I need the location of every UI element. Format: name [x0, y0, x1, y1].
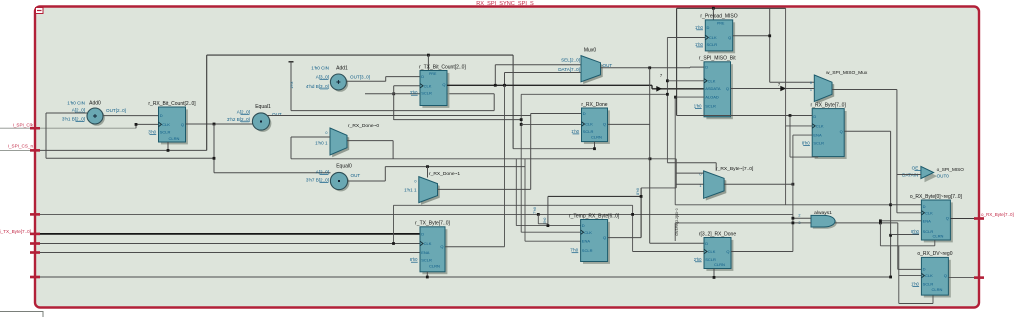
port tick i_SPI_Clk [30, 127, 40, 129]
svg-text:ENA: ENA [582, 239, 591, 244]
comparator Equal1 [254, 115, 271, 132]
junction y158 end [213, 157, 216, 160]
wire preload Q [733, 35, 770, 37]
junction aload [674, 96, 677, 99]
wire clk trunk y94 [521, 93, 667, 95]
junction r_TX_Byte clrn [426, 276, 429, 279]
svg-text:CLK: CLK [424, 83, 432, 88]
svg-text:i_TX_Byte[7..0]: i_TX_Byte[7..0] [0, 229, 31, 234]
junction Q x496 [494, 84, 497, 87]
svg-text:CLRN: CLRN [169, 136, 180, 141]
svg-text:CLK: CLK [709, 35, 717, 40]
wire y205 mid trunk [394, 204, 633, 206]
junction always in b [792, 222, 795, 225]
port o_RX_Byte wire [950, 218, 979, 220]
pin stub OE [915, 170, 921, 172]
svg-text:Add0: Add0 [89, 101, 101, 107]
wire to Equal0 A [214, 172, 331, 174]
svg-text:A[2..0]: A[2..0] [72, 108, 85, 113]
wire rxmux out [724, 183, 793, 185]
port tick y215 [30, 213, 40, 215]
svg-text:r_Preload_MISO: r_Preload_MISO [700, 14, 737, 20]
wire Add0 A feedback loop [46, 112, 87, 114]
mux r_RX_Done~0 [332, 130, 349, 157]
svg-text:8'h0: 8'h0 [802, 141, 810, 146]
wire to w mux in0 [770, 81, 815, 83]
port tick y252 [30, 251, 40, 253]
svg-text:3'h2 B[2..0]: 3'h2 B[2..0] [227, 117, 250, 122]
wire i_SPI_Clk entry [0, 127, 136, 129]
svg-text:1'h0 CIN: 1'h0 CIN [311, 66, 329, 71]
svg-text:0: 0 [810, 81, 812, 85]
mux w_SPI_MISO_Mux [817, 77, 835, 104]
svg-text:D: D [582, 223, 585, 228]
svg-text:3'h7 B[2..0]: 3'h7 B[2..0] [306, 177, 329, 182]
svg-text:Q: Q [726, 249, 729, 254]
and gate always1 [813, 217, 837, 229]
wire wmux out [832, 89, 897, 91]
svg-text:CLK: CLK [925, 273, 933, 278]
wire rxbyte clrn hook [789, 116, 791, 158]
outside fragment box [0, 312, 43, 317]
svg-text:OUT: OUT [272, 112, 282, 117]
port tick y243 [30, 242, 40, 244]
vertical x675 lower [674, 223, 676, 241]
svg-text:o_SPI_MISO: o_SPI_MISO [937, 167, 965, 172]
wire r_RX_Done CLK wire [521, 123, 581, 125]
svg-text:3'h1 B[2..0]: 3'h1 B[2..0] [62, 116, 85, 121]
svg-text:r_SPI_MISO_Bit: r_SPI_MISO_Bit [699, 56, 736, 62]
mux Mux0 [583, 58, 603, 84]
svg-text:CLK: CLK [816, 124, 824, 129]
wire i_SPI_CS_n entry [0, 149, 35, 151]
svg-text:1'h0: 1'h0 [911, 281, 919, 286]
wire r_TX_Byte Q up [445, 246, 505, 248]
svg-text:Q: Q [728, 35, 731, 40]
junction preload PRE [712, 7, 715, 10]
svg-text:1'h0: 1'h0 [695, 42, 703, 47]
svg-text:r_RX_Bit_Count[2..0]: r_RX_Bit_Count[2..0] [148, 101, 196, 107]
wire preload PRE stub [712, 8, 714, 20]
vertical x521 clk net [520, 94, 522, 232]
wire i_SPI_Clk jog to CLK [135, 124, 137, 128]
svg-text:SCLR: SCLR [813, 141, 824, 146]
svg-text:Equal1: Equal1 [255, 104, 271, 110]
junction ena [879, 219, 882, 222]
svg-text:8'h0: 8'h0 [410, 257, 418, 262]
wire o_RX_Byte D entry [891, 204, 922, 206]
wire sel drop to ~1 [427, 167, 429, 178]
wire o_RX_DV CLK feed [899, 275, 922, 277]
svg-text:CLK: CLK [708, 78, 716, 83]
junction y214 x538 [537, 213, 540, 216]
register o_RX_Byte[0]~reg[7..0] [924, 202, 953, 242]
junction clk tbranch [520, 118, 523, 121]
svg-text:o_RX_Byte[7..0]: o_RX_Byte[7..0] [981, 212, 1014, 217]
wire r3_2 D feed [650, 242, 704, 244]
svg-text:o_RX_DV~reg0: o_RX_DV~reg0 [917, 251, 952, 257]
svg-text:PRE: PRE [429, 72, 437, 76]
wire clk trunk y243 to r_TX_Byte CLK [35, 243, 420, 245]
svg-text:D: D [160, 113, 163, 118]
svg-text:D: D [923, 204, 926, 209]
svg-text:r_RX_Done: r_RX_Done [581, 102, 607, 108]
svg-text:ASDATA: ASDATA [705, 86, 721, 91]
vertical x786 from top [785, 8, 787, 205]
register r_SPI_MISO_Bit [706, 64, 733, 119]
junction x632 y214 [631, 213, 634, 216]
vertical x525 to temp ENA [524, 159, 526, 241]
svg-text:r_Temp_RX_Byte[6..0]: r_Temp_RX_Byte[6..0] [569, 213, 620, 219]
svg-text:D: D [923, 266, 926, 271]
svg-text:PRE: PRE [717, 22, 725, 26]
junction PRE branch [427, 54, 430, 57]
svg-text:A[2..0]: A[2..0] [316, 169, 329, 174]
wire ~0 feedback loop [392, 141, 394, 159]
wire y158 mid trunk [291, 158, 676, 160]
comparator Equal0 [332, 174, 349, 191]
svg-text:Q: Q [440, 244, 443, 249]
wire r_TX_Bit_Count Q bus [447, 84, 652, 86]
wire trunk down to clrn line [512, 55, 514, 149]
bus ripper right [780, 86, 786, 92]
svg-text:Q: Q [603, 235, 606, 240]
wire Add0 OUT to D [103, 115, 159, 117]
svg-text:r[3..2]_RX_Done: r[3..2]_RX_Done [699, 231, 736, 237]
wire always1 in b [793, 222, 811, 224]
wire clrn trunk y277 [35, 276, 891, 278]
wire y223 always feed [675, 222, 793, 224]
port tick o_RX_DV [974, 276, 984, 278]
svg-text:A[3..0]: A[3..0] [316, 74, 329, 79]
svg-text:0: 0 [414, 179, 416, 183]
register r_RX_Done [584, 110, 610, 144]
vertical x675 aload net [674, 97, 676, 205]
svg-text:r_RX_Done~0: r_RX_Done~0 [348, 123, 379, 129]
register r_TX_Byte[7..0] [422, 229, 447, 274]
register r_RX_Bit_Count[2..0] [161, 109, 188, 144]
svg-text:0: 0 [325, 131, 327, 135]
junction temp D [547, 224, 550, 227]
svg-text:Add1: Add1 [336, 65, 348, 71]
svg-text:CLK: CLK [162, 122, 170, 127]
vertical clk net x667 [666, 38, 668, 163]
svg-text:ENA: ENA [813, 133, 822, 138]
svg-text:r_RX_Byte~[7..0]: r_RX_Byte~[7..0] [716, 166, 754, 172]
vertical x676 down [676, 8, 678, 115]
svg-text:CLK: CLK [708, 249, 716, 254]
vertical x792 ena net [792, 135, 794, 251]
wire Q jog to ASDATA [651, 85, 653, 89]
output buffer o_SPI_MISO [925, 170, 938, 182]
junction mux0 out x649 [648, 66, 651, 69]
svg-text:DATA[7..0]: DATA[7..0] [558, 67, 580, 72]
wire i_TX_Byte bus to r_TX_Byte D [35, 233, 420, 235]
wire r_RX_Done Q [608, 123, 650, 125]
junction Q split [213, 123, 216, 126]
junction r_RX_Done clrn [593, 147, 596, 150]
wire r_TX_Byte CLRN stub [426, 272, 428, 277]
wire preload CLK feed [667, 37, 705, 39]
svg-text:Q: Q [442, 82, 445, 87]
svg-text:RX_SPI_SYNC_SPI_S: RX_SPI_SYNC_SPI_S [476, 1, 534, 7]
svg-text:8'h0: 8'h0 [636, 188, 640, 195]
svg-text:7'h0: 7'h0 [533, 207, 537, 214]
svg-text:ENA: ENA [923, 218, 932, 223]
wire r3_2 CLRN stub [713, 269, 715, 278]
svg-text:CLK: CLK [584, 230, 592, 235]
svg-text:D: D [705, 241, 708, 246]
wire o_RX_Byte CLK feed [897, 212, 922, 214]
vertical cs_n to top trunk [206, 55, 208, 150]
junction clk x667 b [666, 93, 669, 96]
svg-text:2'h0: 2'h0 [694, 257, 702, 262]
junction clk x667 [666, 79, 669, 82]
svg-text:Q: Q [840, 129, 843, 134]
svg-text:Mux0: Mux0 [584, 48, 596, 54]
svg-text:OUT[3..0]: OUT[3..0] [350, 75, 370, 80]
wire r_RX_Bit_Count CLRN stub [167, 142, 169, 150]
svg-text:1'h0 1: 1'h0 1 [315, 141, 328, 146]
wire SEL riser [494, 65, 496, 86]
svg-text:SCLR: SCLR [705, 104, 716, 109]
register r_Temp_RX_Byte[6..0] [583, 222, 610, 264]
register r[3..2]_RX_Done [706, 240, 733, 271]
svg-text:o_RX_Byte[0]~reg[7..0]: o_RX_Byte[0]~reg[7..0] [910, 194, 963, 200]
junction x393 clk [392, 242, 395, 245]
svg-text:Q: Q [726, 86, 729, 91]
junction rxmux out [792, 183, 795, 186]
wire tie const run y110 [291, 110, 494, 112]
svg-text:Equal0: Equal0 [336, 164, 352, 170]
tie-off T bar const [289, 61, 294, 63]
svg-text:CLK: CLK [925, 210, 933, 215]
svg-text:D: D [583, 111, 586, 116]
svg-text:OUT0: OUT0 [937, 173, 950, 178]
port tick i_TX_Byte [30, 233, 40, 235]
wire sclr feed o_RX_Byte [891, 234, 919, 236]
wire top trunk y55 [207, 54, 513, 56]
wire top y8 trunk [677, 7, 786, 9]
vertical x494 up to sclr wire [493, 94, 495, 111]
vertical x504 data/txbyte [504, 85, 506, 246]
wire wmux in1 from Q [731, 88, 815, 90]
port tick i_SPI_CS_n [30, 149, 40, 151]
wire r_RX_Byte ENA feed [793, 134, 812, 136]
svg-text:OUT[2..0]: OUT[2..0] [106, 108, 126, 113]
svg-text:ALOAD: ALOAD [705, 95, 719, 100]
bus ripper left [656, 86, 662, 92]
junction preload q [768, 34, 771, 37]
wire i_SPI_CS_n run [35, 149, 207, 151]
svg-text:8'h0: 8'h0 [543, 218, 547, 225]
svg-text:8'h0: 8'h0 [911, 229, 919, 234]
svg-text:2'h3: 2'h3 [290, 82, 294, 89]
svg-text:CLK: CLK [585, 122, 593, 127]
svg-text:Q: Q [181, 122, 184, 127]
svg-text:SCLR: SCLR [923, 282, 934, 287]
wire miso bit CLK feed [667, 80, 704, 82]
wire ~1 out to r_RX_Done D [438, 188, 531, 190]
svg-text:SCLR: SCLR [583, 129, 594, 134]
svg-text:SCLR: SCLR [421, 90, 432, 95]
mux r_RX_Byte~[7..0] [706, 173, 727, 200]
svg-text:OE: OE [912, 166, 919, 171]
junction always out [879, 222, 882, 225]
svg-text:1'h1 1: 1'h1 1 [404, 187, 417, 192]
svg-text:SCLR: SCLR [707, 42, 718, 47]
wire DATA riser [504, 73, 506, 86]
svg-text:always1: always1 [814, 210, 832, 216]
svg-text:CLK: CLK [424, 241, 432, 246]
svg-text:D: D [813, 114, 816, 119]
wire ena trunk y252 to r_TX_Byte ENA [35, 252, 420, 254]
register r_RX_Byte[7..0] [815, 111, 847, 159]
svg-text:Q: Q [946, 216, 949, 221]
port tick y277 [30, 276, 40, 278]
wire rxmux sel top [667, 162, 716, 164]
wire Mux0 OUT to r_SPI_MISO_Bit D [601, 67, 691, 69]
wire Add1 OUT to r_TX_Bit_Count D [346, 80, 385, 82]
wire rxmux in0 [676, 172, 703, 174]
wire clrn route [934, 240, 936, 246]
wire sclr branch [365, 93, 411, 95]
svg-text:A[2..0]: A[2..0] [237, 109, 250, 114]
wire clrn line y148 [513, 148, 594, 150]
mux r_RX_Done~1 [421, 179, 440, 205]
adder Add0 [89, 110, 105, 126]
junction rxbyte q y204 [889, 203, 892, 206]
svg-text:2: 2 [798, 213, 800, 217]
svg-text:CLRN: CLRN [932, 234, 943, 239]
svg-text:4'hd B[3..0]: 4'hd B[3..0] [306, 84, 329, 89]
adder Add1 [332, 76, 348, 92]
junction d feed clrn branch [789, 114, 792, 117]
svg-text:r_TX_Bit_Count[2..0]: r_TX_Bit_Count[2..0] [419, 64, 466, 70]
svg-text:CLRN: CLRN [714, 262, 725, 267]
svg-text:CLRN: CLRN [429, 264, 440, 269]
port tick o_RX_Byte [974, 217, 984, 219]
junction clk rxdone [520, 123, 523, 126]
svg-text:D: D [705, 65, 708, 70]
svg-text:1'h0: 1'h0 [695, 25, 703, 30]
wire r_RX_Bit_Count Q [186, 123, 253, 125]
junction clk jog [135, 123, 138, 126]
vertical x393 between y205 and clk [393, 205, 395, 243]
wire ALOAD feed [676, 96, 705, 98]
wire o_RX_Byte ENA feed [880, 220, 921, 222]
junction always in a [792, 217, 795, 220]
vertical x516 to temp D [515, 159, 517, 226]
port o_RX_DV wire [948, 277, 979, 279]
wire net y214 trunk [35, 213, 793, 215]
svg-text:Q: Q [944, 273, 947, 278]
junction rxbyte q y235 [889, 234, 892, 237]
svg-text:1'h0 CIN: 1'h0 CIN [67, 101, 85, 106]
wire ena drop [879, 223, 881, 246]
svg-text:D: D [421, 231, 424, 236]
wire temp loop [608, 237, 642, 239]
svg-text:D: D [421, 74, 424, 79]
port tick overlay left [30, 127, 40, 129]
wire r_RX_Byte D feed [677, 115, 813, 117]
svg-text:SCLR: SCLR [582, 248, 593, 253]
wire PRE stub [427, 55, 429, 70]
svg-text:r_RX_Done~1: r_RX_Done~1 [429, 171, 460, 177]
port tick overlay right [974, 217, 984, 219]
wire Equal1 OUT [267, 115, 531, 117]
wire r3_2 Q [731, 251, 793, 253]
svg-text:1'h0: 1'h0 [694, 103, 702, 108]
svg-text:r_TX_Byte[7..0]: r_TX_Byte[7..0] [415, 221, 450, 227]
vertical x769 down [769, 8, 771, 82]
junction equal0 out [426, 165, 429, 168]
svg-text:OUT: OUT [351, 173, 361, 178]
wire ~0 output [347, 140, 393, 142]
vertical Q to equal0 [213, 124, 215, 173]
wire r3_2 CLK feed [633, 251, 704, 253]
svg-text:i_SPI_Clk: i_SPI_Clk [13, 122, 34, 127]
svg-text:w_SPI_MISO_Mux: w_SPI_MISO_Mux [826, 70, 868, 76]
svg-text:CLRN: CLRN [931, 287, 942, 292]
junction y158 x650 [649, 157, 652, 160]
wire r_RX_Byte CLK feed [786, 125, 813, 127]
wire x538 branch [537, 214, 539, 223]
vertical x632 y205-y251 [632, 205, 634, 251]
wire y204 right trunk [675, 204, 890, 206]
svg-text:SEL[2..0]: SEL[2..0] [561, 57, 580, 62]
svg-text:i_SPI_CS_n: i_SPI_CS_n [8, 143, 33, 148]
collapse minus box [36, 8, 44, 14]
junction sclr wire [392, 92, 395, 95]
wire y188 link [641, 187, 676, 189]
wire always1 out [835, 222, 898, 224]
junction temp loop [640, 195, 643, 198]
wire always1 in a [793, 217, 811, 219]
wire r_RX_Byte Q [844, 130, 890, 132]
wire DATAIN feed [897, 174, 921, 176]
wire r_RX_Done CLRN stub [594, 142, 596, 149]
svg-text:r_RX_Byte[7..0]: r_RX_Byte[7..0] [811, 102, 847, 108]
register r_Preload_MISO [708, 22, 735, 53]
svg-text:CLRN: CLRN [591, 135, 602, 140]
svg-text:ENA: ENA [421, 250, 430, 255]
svg-text:Q: Q [603, 122, 606, 127]
svg-text:3'h0: 3'h0 [410, 90, 418, 95]
wire rxmux in1 [675, 159, 677, 188]
svg-text:1'h0: 1'h0 [571, 129, 579, 134]
junction Q x504 [503, 84, 506, 87]
svg-text:7'h0: 7'h0 [570, 248, 578, 253]
junction r3_2 clrn [713, 276, 716, 279]
junction CLRN cs_n [167, 149, 170, 152]
junction rxbyte q y277 [889, 276, 892, 279]
svg-text:3'h0: 3'h0 [148, 130, 156, 135]
svg-text:SCLR: SCLR [160, 130, 171, 135]
register o_RX_DV~reg0 [924, 260, 951, 298]
register r_TX_Bit_Count[2..0] [422, 73, 449, 108]
wire Equal0 OUT path [348, 180, 386, 182]
svg-text:D: D [707, 25, 710, 30]
svg-text:SCLR: SCLR [421, 257, 432, 262]
